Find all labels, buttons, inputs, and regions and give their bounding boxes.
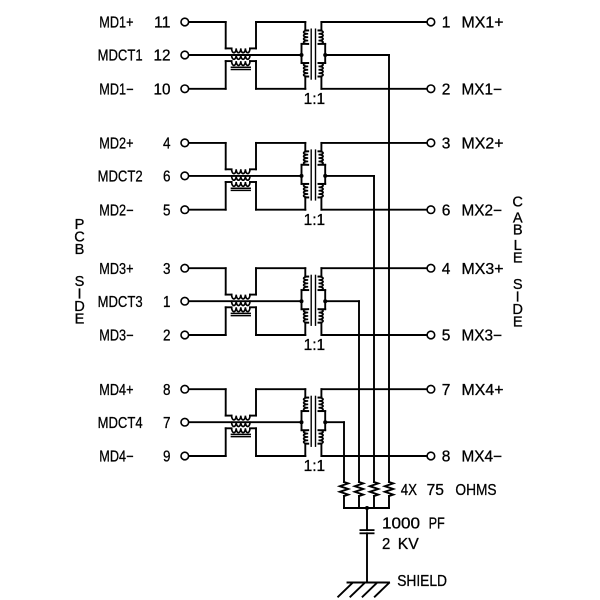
svg-text:3: 3 bbox=[163, 261, 171, 278]
svg-text:6: 6 bbox=[442, 202, 451, 219]
svg-text:MD1−: MD1− bbox=[99, 81, 133, 98]
svg-text:MDCT1: MDCT1 bbox=[98, 48, 143, 65]
svg-text:5: 5 bbox=[163, 202, 171, 219]
svg-text:MDCT2: MDCT2 bbox=[98, 169, 143, 186]
svg-text:MX2+: MX2+ bbox=[462, 136, 504, 153]
svg-text:MX1−: MX1− bbox=[462, 81, 503, 98]
svg-text:MX4−: MX4− bbox=[462, 449, 503, 466]
svg-text:MDCT3: MDCT3 bbox=[98, 294, 143, 311]
svg-text:MDCT4: MDCT4 bbox=[98, 415, 143, 432]
svg-text:8: 8 bbox=[163, 382, 171, 399]
svg-text:MD4+: MD4+ bbox=[99, 382, 133, 399]
svg-text:B: B bbox=[75, 242, 85, 258]
svg-text:1:1: 1:1 bbox=[304, 337, 326, 354]
svg-text:PF: PF bbox=[429, 516, 445, 533]
svg-text:MD1+: MD1+ bbox=[99, 15, 133, 32]
svg-text:MD3−: MD3− bbox=[99, 328, 133, 345]
svg-text:SHIELD: SHIELD bbox=[397, 573, 447, 590]
svg-text:MX3+: MX3+ bbox=[462, 261, 504, 278]
svg-text:4: 4 bbox=[163, 136, 171, 153]
svg-text:E: E bbox=[513, 314, 523, 330]
svg-text:2: 2 bbox=[382, 536, 390, 553]
svg-text:MD3+: MD3+ bbox=[99, 261, 133, 278]
svg-text:MD2+: MD2+ bbox=[99, 136, 133, 153]
svg-text:B: B bbox=[513, 222, 523, 238]
svg-text:1:1: 1:1 bbox=[304, 91, 326, 108]
svg-text:C: C bbox=[512, 195, 523, 211]
svg-text:MX1+: MX1+ bbox=[462, 15, 504, 32]
svg-text:12: 12 bbox=[154, 48, 171, 65]
svg-text:1: 1 bbox=[442, 15, 451, 32]
svg-text:MX2−: MX2− bbox=[462, 202, 503, 219]
svg-text:4X: 4X bbox=[401, 482, 418, 499]
svg-text:MD2−: MD2− bbox=[99, 202, 133, 219]
svg-text:MX4+: MX4+ bbox=[462, 382, 504, 399]
svg-text:MX3−: MX3− bbox=[462, 328, 503, 345]
svg-text:KV: KV bbox=[398, 536, 420, 553]
svg-text:E: E bbox=[513, 250, 523, 266]
svg-text:8: 8 bbox=[442, 449, 451, 466]
svg-text:1: 1 bbox=[163, 294, 171, 311]
svg-text:1:1: 1:1 bbox=[304, 458, 326, 475]
svg-text:E: E bbox=[75, 311, 85, 327]
svg-text:9: 9 bbox=[163, 449, 171, 466]
svg-text:6: 6 bbox=[163, 169, 171, 186]
svg-text:2: 2 bbox=[442, 81, 451, 98]
svg-text:MD4−: MD4− bbox=[99, 449, 133, 466]
svg-text:OHMS: OHMS bbox=[455, 482, 496, 499]
svg-text:75: 75 bbox=[427, 482, 444, 499]
svg-text:1:1: 1:1 bbox=[304, 212, 326, 229]
svg-text:7: 7 bbox=[163, 415, 171, 432]
svg-text:3: 3 bbox=[442, 136, 451, 153]
svg-text:4: 4 bbox=[442, 261, 451, 278]
svg-text:7: 7 bbox=[442, 382, 451, 399]
svg-text:11: 11 bbox=[154, 15, 171, 32]
svg-text:5: 5 bbox=[442, 328, 451, 345]
svg-text:2: 2 bbox=[163, 328, 171, 345]
svg-text:10: 10 bbox=[154, 81, 171, 98]
svg-text:1000: 1000 bbox=[382, 516, 420, 533]
